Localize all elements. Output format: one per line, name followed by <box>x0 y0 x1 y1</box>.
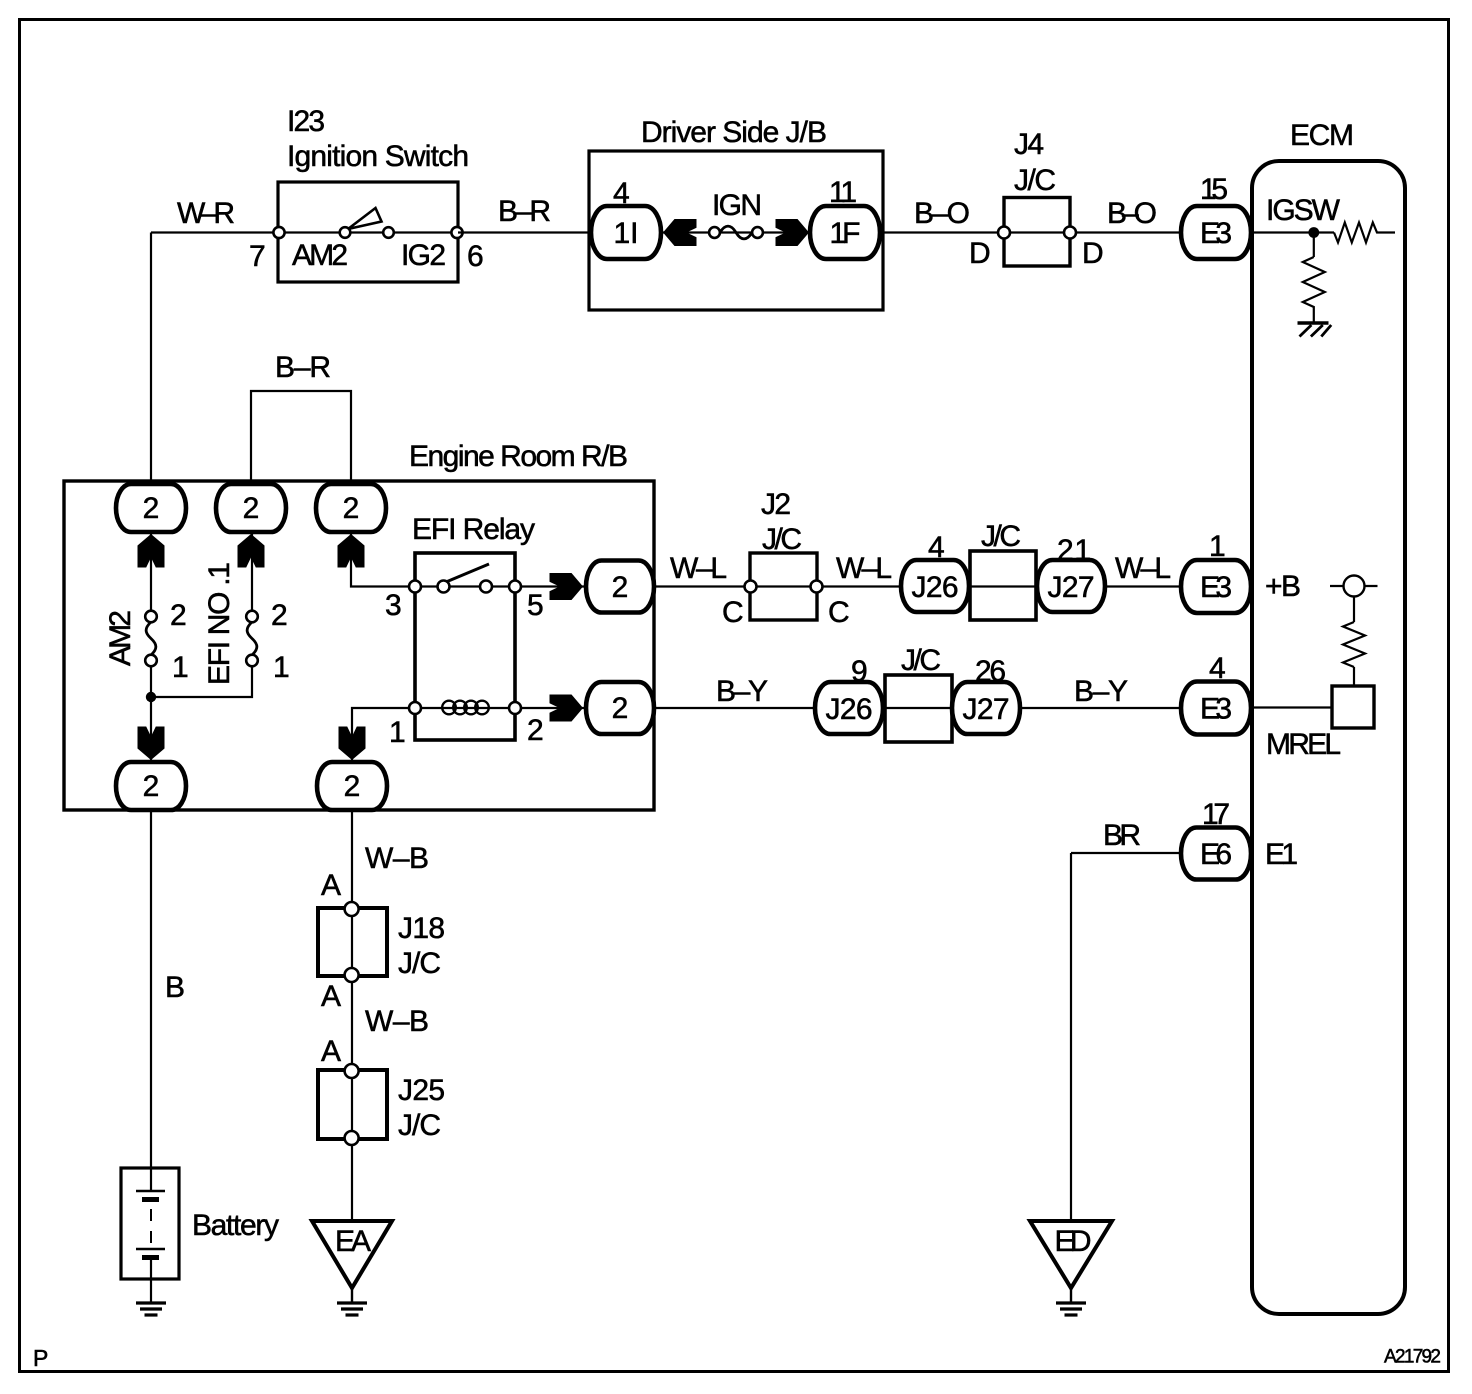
svg-text:B–O: B–O <box>914 197 970 230</box>
svg-text:J27: J27 <box>963 693 1010 726</box>
wire B-O right <box>1077 231 1182 233</box>
svg-text:MREL: MREL <box>1266 728 1341 761</box>
junction J2 J/C box <box>745 553 823 620</box>
wire relay pin2 to output oval <box>522 707 586 709</box>
svg-text:ECM: ECM <box>1290 119 1354 152</box>
svg-text:6: 6 <box>467 240 484 273</box>
svg-text:IG2: IG2 <box>401 239 446 272</box>
svg-text:IGN: IGN <box>712 189 762 222</box>
svg-text:9: 9 <box>851 655 868 688</box>
wire inside J/B <box>626 231 845 233</box>
connector oval 2 bottom-1 <box>116 762 186 810</box>
svg-text:17: 17 <box>1202 798 1230 831</box>
connector oval 1F pin 11 <box>810 176 880 259</box>
svg-text:Battery: Battery <box>192 1209 279 1242</box>
junction J/C box upper middle <box>970 551 1036 620</box>
wire relay pin1 to lower oval <box>352 708 415 763</box>
wire B-Y from RB <box>654 707 815 709</box>
svg-text:J/C: J/C <box>1014 164 1056 197</box>
node IGSW junction dot <box>1308 227 1319 238</box>
node junction dot AM2/EFI <box>146 692 156 702</box>
svg-text:B–Y: B–Y <box>1074 675 1128 708</box>
svg-text:IGSW: IGSW <box>1266 194 1341 227</box>
svg-text:15: 15 <box>1200 173 1228 206</box>
svg-text:5: 5 <box>527 589 544 622</box>
arrow right into 1F <box>776 219 810 246</box>
switch lever <box>348 208 382 229</box>
svg-text:E3: E3 <box>1200 571 1232 604</box>
svg-text:J/C: J/C <box>901 644 941 677</box>
svg-text:1: 1 <box>389 716 406 749</box>
wire W-B between J18 J25 <box>351 983 353 1070</box>
wire B-O left <box>883 231 1004 233</box>
svg-text:B: B <box>165 971 185 1004</box>
ground chassis under IGSW resistor <box>1298 323 1332 337</box>
wire B-R <box>458 231 591 233</box>
svg-text:3: 3 <box>385 589 402 622</box>
fuse AM2 <box>145 611 157 667</box>
svg-text:BR: BR <box>1103 819 1141 852</box>
relay coil loops <box>442 701 489 715</box>
svg-text:7: 7 <box>249 240 266 273</box>
svg-text:Ignition Switch: Ignition Switch <box>287 140 469 173</box>
connector oval E3 pin 15 <box>1181 173 1251 259</box>
junction J18 J/C box <box>318 902 387 982</box>
connector oval 2 top-1 <box>116 484 186 532</box>
connector oval 2 bottom-2 <box>317 762 387 810</box>
svg-text:EFI NO .1: EFI NO .1 <box>203 562 236 685</box>
ignition sense symbol circle <box>1330 576 1378 597</box>
arrow up into top oval 1 <box>138 534 165 568</box>
svg-text:2: 2 <box>612 571 629 604</box>
svg-text:J/C: J/C <box>398 1109 441 1142</box>
arrow left into 1I <box>663 219 697 246</box>
wire resistor to MREL box <box>1353 667 1355 686</box>
connector oval E3 pin 1 <box>1181 530 1251 613</box>
relay switch wire <box>415 585 515 587</box>
Driver Side J/B box <box>589 151 883 310</box>
wire W-R vertical drop <box>150 233 152 486</box>
svg-text:C: C <box>722 596 744 629</box>
arrow up into top oval 2 <box>238 534 265 568</box>
wire ED to ground <box>1070 1288 1072 1303</box>
svg-text:W–R: W–R <box>177 197 235 230</box>
connector oval 2 output W-L <box>586 561 654 613</box>
svg-text:B–Y: B–Y <box>716 675 768 708</box>
ground point ED triangle <box>1030 1221 1112 1288</box>
junction J4 J/C box <box>998 198 1076 267</box>
wire J2 to J26 <box>824 585 902 587</box>
connector oval J26 pin 9 lower <box>815 655 883 734</box>
connector oval J27 pin 21 upper <box>1037 534 1105 612</box>
svg-text:21: 21 <box>1057 534 1091 567</box>
svg-text:J/C: J/C <box>398 947 441 980</box>
connector oval 2 top-3 <box>316 484 386 532</box>
arrow up into top oval 3 <box>338 534 365 568</box>
relay EFI Relay box <box>415 553 515 740</box>
Engine Room R/B box <box>64 481 654 810</box>
svg-text:+B: +B <box>1265 570 1301 603</box>
svg-text:AM2: AM2 <box>104 610 137 666</box>
svg-text:J18: J18 <box>398 912 445 945</box>
ground below battery <box>136 1303 166 1315</box>
svg-text:J2: J2 <box>761 488 791 521</box>
wire W-L to J2 <box>654 585 751 587</box>
wire W-B from RB to J18 <box>351 810 353 908</box>
MREL driver box <box>1332 686 1374 728</box>
junction J25 J/C box <box>318 1064 387 1145</box>
svg-text:4: 4 <box>928 531 945 564</box>
svg-text:1: 1 <box>172 651 189 684</box>
svg-text:1: 1 <box>273 651 290 684</box>
svg-text:W–L: W–L <box>670 552 727 585</box>
svg-text:2: 2 <box>271 599 288 632</box>
ground below EA <box>337 1303 367 1315</box>
ground below ED <box>1056 1303 1086 1315</box>
resistor IGSW series horizontal <box>1334 223 1395 243</box>
svg-text:A: A <box>321 980 341 1013</box>
svg-text:J25: J25 <box>398 1074 445 1107</box>
wire J27 to E3 MREL <box>1020 707 1182 709</box>
relay coil wire <box>415 707 515 709</box>
wire B battery feed <box>150 810 152 1191</box>
svg-text:26: 26 <box>975 655 1006 688</box>
ground point EA triangle <box>312 1221 392 1288</box>
svg-text:4: 4 <box>1209 652 1226 685</box>
fuse IGN <box>709 226 763 239</box>
relay coil pin circles <box>409 702 521 714</box>
relay switch circles <box>409 581 521 593</box>
wire E3 to MREL box <box>1251 706 1332 708</box>
svg-text:W–B: W–B <box>365 842 429 875</box>
svg-text:2: 2 <box>143 770 160 803</box>
svg-text:P: P <box>33 1345 48 1371</box>
svg-text:E3: E3 <box>1200 693 1232 726</box>
svg-text:Driver Side J/B: Driver Side J/B <box>641 116 827 149</box>
wire EA to ground <box>351 1288 353 1303</box>
arrow down into bottom oval 2 <box>339 727 366 761</box>
svg-text:A: A <box>321 1035 341 1068</box>
svg-text:J4: J4 <box>1014 128 1044 161</box>
wire relay pin5 to output oval <box>522 585 586 587</box>
svg-text:2: 2 <box>343 492 360 525</box>
connector oval 2 output B-Y <box>586 682 654 734</box>
wire B-R loop <box>251 391 351 485</box>
connector oval J26 pin 4 upper <box>901 531 969 612</box>
svg-text:4: 4 <box>613 177 630 210</box>
svg-text:W–L: W–L <box>1115 552 1171 585</box>
svg-text:J26: J26 <box>912 571 959 604</box>
wire E3 to IGSW node <box>1251 231 1334 233</box>
wire oval3 to relay pin3 <box>351 532 415 587</box>
svg-text:B–R: B–R <box>275 351 331 384</box>
svg-text:2: 2 <box>344 770 361 803</box>
svg-text:1I: 1I <box>614 217 639 250</box>
arrow right into W-L oval <box>550 573 584 600</box>
svg-text:2: 2 <box>143 492 160 525</box>
wire J27 to E3 <box>1105 585 1182 587</box>
connector oval 2 top-2 <box>216 484 286 532</box>
wire junction to EFI fuse <box>151 666 252 697</box>
connector oval J27 pin 26 lower <box>952 655 1020 734</box>
svg-text:ED: ED <box>1055 1225 1092 1258</box>
svg-text:11: 11 <box>829 176 857 209</box>
svg-text:E1: E1 <box>1265 838 1298 871</box>
svg-text:C: C <box>828 596 850 629</box>
svg-text:J/C: J/C <box>981 520 1021 553</box>
svg-text:EFI Relay: EFI Relay <box>412 513 535 546</box>
switch contact circles <box>340 227 351 238</box>
connector oval E6 pin 17 <box>1181 798 1251 880</box>
svg-text:I23: I23 <box>287 105 325 138</box>
svg-text:A: A <box>321 869 341 902</box>
svg-text:EA: EA <box>335 1225 371 1258</box>
svg-text:2: 2 <box>612 692 629 725</box>
pin 7 terminal circle <box>273 227 284 238</box>
svg-text:B–R: B–R <box>498 195 551 228</box>
wire circle to resistor MREL pull <box>1353 597 1355 623</box>
arrow right into B-Y oval <box>550 695 584 722</box>
svg-text:J/C: J/C <box>762 523 802 556</box>
svg-text:2: 2 <box>243 492 260 525</box>
svg-text:1: 1 <box>1209 530 1226 563</box>
svg-text:D: D <box>969 237 991 270</box>
svg-text:2: 2 <box>170 599 187 632</box>
resistor MREL pull-up vertical <box>1343 622 1365 667</box>
arrow down into bottom oval 1 <box>138 727 165 761</box>
svg-text:W–B: W–B <box>365 1005 429 1038</box>
wire BR vertical to ED <box>1070 853 1072 1221</box>
wire J25 to EA <box>351 1146 353 1221</box>
svg-text:Engine Room R/B: Engine Room R/B <box>409 440 628 473</box>
junction J/C box lower middle <box>885 675 952 742</box>
pin 6 terminal circle <box>451 227 462 238</box>
wire BR horizontal <box>1071 852 1182 854</box>
svg-text:B–O: B–O <box>1107 197 1157 230</box>
svg-text:J27: J27 <box>1048 571 1095 604</box>
connector oval 1I pin 4 <box>591 177 661 259</box>
svg-text:A21792: A21792 <box>1384 1347 1441 1368</box>
ignition switch I23 box <box>278 182 458 282</box>
relay switch lever <box>446 564 489 582</box>
connector oval E3 pin 4 <box>1181 652 1251 735</box>
svg-text:W–L: W–L <box>836 552 892 585</box>
battery <box>121 1168 179 1302</box>
svg-text:D: D <box>1082 237 1104 270</box>
svg-text:1F: 1F <box>830 217 861 250</box>
svg-text:E6: E6 <box>1200 838 1232 871</box>
wire AM2 fuse chain vertical <box>150 532 152 611</box>
svg-text:AM2: AM2 <box>292 239 348 272</box>
wire W-R horizontal top <box>151 231 278 233</box>
ECM box <box>1252 161 1405 1314</box>
svg-text:2: 2 <box>527 714 544 747</box>
wire EFI fuse top <box>251 532 253 611</box>
wire node down <box>1313 233 1315 258</box>
svg-text:E3: E3 <box>1200 217 1232 250</box>
fuse EFI NO.1 <box>246 611 258 667</box>
svg-text:J26: J26 <box>826 693 873 726</box>
resistor IGSW pulldown vertical <box>1303 257 1325 323</box>
